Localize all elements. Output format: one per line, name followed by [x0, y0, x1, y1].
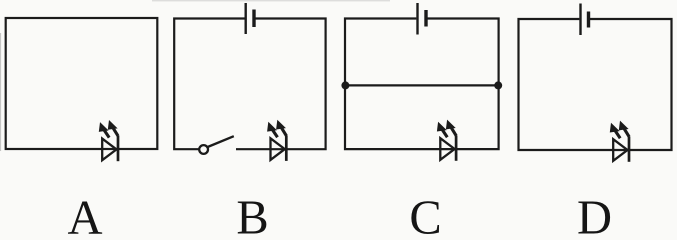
LED D1 (circuit A): emission arrow 1 [99, 122, 109, 138]
LED D4 (circuit D): emission arrow 2 [619, 121, 629, 137]
LED D4 (circuit D): diode triangle [613, 139, 627, 161]
scan artifact: faint smear along top edge [152, 0, 390, 1]
LED D4 (circuit D): cathode bar [628, 136, 631, 161]
svg-text:C: C [409, 192, 441, 236]
LED D1 (circuit A): diode triangle [102, 139, 116, 161]
switch S1 (circuit B): pivot circle [199, 145, 208, 154]
LED D2 (circuit B): emission arrow 2 [276, 120, 286, 136]
circuit B: wire, right segment from battery to LED [236, 19, 326, 150]
LED D3 (circuit C): emission arrow 1 [437, 122, 447, 138]
battery (circuit B): long positive plate [244, 3, 246, 34]
LED D1 (circuit A): emission arrow 2 [108, 120, 118, 136]
battery (circuit B): short negative plate [252, 10, 255, 28]
scan artifact: faint line at left edge [0, 33, 1, 151]
circuit C: junction dot left [341, 81, 349, 89]
LED D2 (circuit B): cathode bar [285, 136, 288, 161]
LED D2 (circuit B): diode triangle [271, 138, 285, 160]
circuit C: shorting wire across middle [345, 84, 499, 86]
circuit D: wire loop (gap at battery) [519, 19, 672, 150]
circuit A: wire loop [6, 18, 158, 149]
circuit B: wire, left/top segment to battery [174, 19, 244, 150]
svg-text:A: A [67, 192, 102, 236]
circuit C: wire loop (gap at battery) [345, 19, 499, 150]
switch S1 (circuit B): open blade [208, 136, 234, 147]
LED D1 (circuit A): cathode bar [117, 136, 120, 161]
svg-text:D: D [577, 192, 612, 236]
LED D3 (circuit C): diode triangle [440, 138, 454, 160]
LED D3 (circuit C): emission arrow 2 [446, 120, 456, 136]
battery (circuit D): short negative plate [587, 12, 590, 28]
svg-text:B: B [236, 192, 268, 236]
battery (circuit D): long positive plate [579, 4, 581, 36]
LED D3 (circuit C): cathode bar [455, 135, 458, 160]
battery (circuit C): short negative plate [424, 10, 427, 27]
battery (circuit C): long positive plate [416, 3, 418, 35]
LED D4 (circuit D): emission arrow 1 [610, 123, 620, 139]
LED D2 (circuit B): emission arrow 1 [267, 122, 277, 138]
circuit C: junction dot right [494, 81, 502, 89]
